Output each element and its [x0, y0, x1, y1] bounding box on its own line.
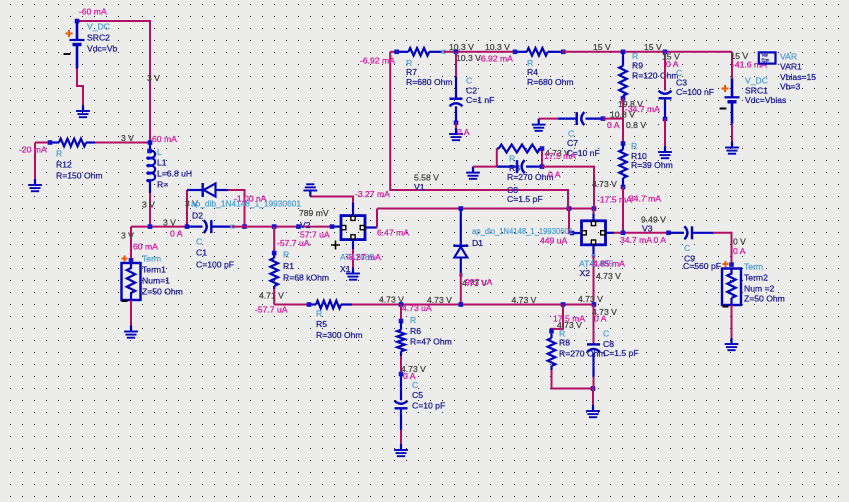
- svg-text:R=150 Ohm: R=150 Ohm: [56, 171, 103, 181]
- svg-text:4.73 V: 4.73 V: [512, 295, 537, 305]
- svg-text:R6: R6: [410, 326, 421, 336]
- svg-text:C: C: [466, 76, 472, 86]
- svg-text:Vdc=Vb: Vdc=Vb: [87, 44, 118, 54]
- svg-text:C: C: [196, 237, 202, 247]
- svg-text:R: R: [632, 51, 638, 61]
- svg-text:R=68 kOhm: R=68 kOhm: [283, 273, 329, 283]
- svg-text:-4.85 mA: -4.85 mA: [590, 259, 625, 269]
- svg-text:R=270 Ohm: R=270 Ohm: [507, 172, 554, 182]
- svg-text:R=: R=: [157, 180, 168, 190]
- svg-text:-6.92 mA: -6.92 mA: [478, 54, 513, 64]
- svg-text:R=120 Ohm: R=120 Ohm: [632, 71, 679, 81]
- svg-text:Vb=3: Vb=3: [780, 82, 801, 92]
- svg-text:60 mA: 60 mA: [152, 134, 177, 144]
- svg-text:3 V: 3 V: [121, 231, 134, 241]
- svg-text:3 V: 3 V: [163, 218, 176, 228]
- svg-text:R5: R5: [316, 319, 327, 329]
- svg-text:Z=50 Ohm: Z=50 Ohm: [142, 287, 183, 297]
- svg-text:V_DC: V_DC: [87, 22, 110, 32]
- svg-text:4.73 V: 4.73 V: [578, 294, 603, 304]
- svg-text:15 V: 15 V: [644, 42, 662, 52]
- svg-text:VAR: VAR: [780, 52, 797, 62]
- svg-text:Num =2: Num =2: [744, 284, 775, 294]
- svg-text:C=1.5 pF: C=1.5 pF: [507, 194, 543, 204]
- svg-text:V3: V3: [642, 224, 653, 234]
- svg-text:R=300 Ohm: R=300 Ohm: [316, 330, 363, 340]
- svg-text:-1.00 nA: -1.00 nA: [234, 194, 267, 204]
- svg-text:R=680 Ohm: R=680 Ohm: [527, 77, 574, 87]
- svg-text:C=1 nF: C=1 nF: [466, 95, 494, 105]
- svg-text:D2: D2: [192, 211, 203, 221]
- svg-text:4.73 V: 4.73 V: [596, 271, 621, 281]
- svg-text:V_DC: V_DC: [745, 76, 768, 86]
- svg-text:0.8 V: 0.8 V: [626, 120, 646, 130]
- svg-text:3 V: 3 V: [142, 200, 155, 210]
- svg-text:C=100 pF: C=100 pF: [196, 260, 234, 270]
- svg-text:C: C: [568, 129, 574, 139]
- svg-text:C5: C5: [412, 390, 423, 400]
- svg-text:Term2: Term2: [744, 273, 768, 283]
- svg-text:R=270 Ohm: R=270 Ohm: [559, 349, 606, 359]
- svg-text:5.58 V: 5.58 V: [414, 173, 439, 183]
- svg-text:3 V: 3 V: [147, 73, 160, 83]
- svg-text:C=100 nF: C=100 nF: [676, 87, 714, 97]
- svg-text:R: R: [283, 250, 289, 260]
- svg-text:0 A: 0 A: [170, 229, 183, 239]
- svg-text:L: L: [157, 147, 162, 157]
- svg-text:R7: R7: [406, 67, 417, 77]
- svg-text:C2: C2: [466, 86, 477, 96]
- svg-text:4.73 V: 4.73 V: [592, 179, 617, 189]
- svg-text:X1: X1: [340, 264, 351, 274]
- svg-text:L1: L1: [157, 158, 167, 168]
- svg-text:Term1: Term1: [142, 265, 166, 275]
- svg-text:Z=50 Ohm: Z=50 Ohm: [744, 294, 785, 304]
- svg-text:4.71 V: 4.71 V: [259, 291, 284, 301]
- svg-text:Vdc=Vbias: Vdc=Vbias: [745, 95, 786, 105]
- svg-text:0 A: 0 A: [666, 59, 679, 69]
- svg-text:17.5 mA: 17.5 mA: [544, 151, 576, 161]
- svg-text:C=1.5 pF: C=1.5 pF: [603, 348, 639, 358]
- svg-text:-17.5 mA: -17.5 mA: [597, 195, 632, 205]
- svg-text:6.47 mA: 6.47 mA: [377, 228, 409, 238]
- svg-text:789 mV: 789 mV: [299, 208, 329, 218]
- svg-text:Eqn: Eqn: [762, 58, 770, 63]
- svg-text:L=6.8 uH: L=6.8 uH: [157, 169, 192, 179]
- svg-text:X2: X2: [580, 268, 591, 278]
- svg-text:0 A: 0 A: [654, 235, 667, 245]
- svg-text:R: R: [410, 315, 416, 325]
- svg-text:-6.92 mA: -6.92 mA: [360, 56, 395, 66]
- svg-text:15 V: 15 V: [593, 42, 611, 52]
- svg-text:C3: C3: [676, 78, 687, 88]
- svg-text:60 mA: 60 mA: [133, 242, 158, 252]
- svg-text:R: R: [316, 309, 322, 319]
- svg-text:SRC1: SRC1: [745, 86, 768, 96]
- svg-text:R1: R1: [283, 261, 294, 271]
- svg-text:-8.27 mA: -8.27 mA: [346, 252, 381, 262]
- svg-text:10.3 V: 10.3 V: [485, 42, 510, 52]
- svg-text:10.3 V: 10.3 V: [449, 42, 474, 52]
- svg-text:-3.27 mA: -3.27 mA: [355, 189, 390, 199]
- svg-text:-57.7 uA: -57.7 uA: [255, 305, 288, 315]
- svg-text:R: R: [56, 149, 62, 159]
- svg-text:SRC2: SRC2: [87, 33, 110, 43]
- svg-text:34.7 mA: 34.7 mA: [620, 235, 652, 245]
- svg-text:0 A: 0 A: [607, 120, 620, 130]
- svg-text:Term: Term: [142, 254, 161, 264]
- svg-text:C: C: [412, 380, 418, 390]
- svg-text:C=10 pF: C=10 pF: [412, 401, 445, 411]
- svg-text:R=47 Ohm: R=47 Ohm: [410, 337, 452, 347]
- svg-text:34.7 mA: 34.7 mA: [629, 194, 661, 204]
- svg-text:C: C: [676, 68, 682, 78]
- svg-text:4.73 V: 4.73 V: [379, 295, 404, 305]
- svg-text:4.73 uA: 4.73 uA: [402, 303, 432, 313]
- svg-text:VAR1: VAR1: [780, 62, 802, 72]
- svg-text:0 A: 0 A: [548, 170, 561, 180]
- svg-text:C1: C1: [196, 248, 207, 258]
- svg-text:C=560 pF: C=560 pF: [683, 261, 721, 271]
- svg-text:R12: R12: [56, 160, 72, 170]
- svg-text:Term: Term: [744, 262, 763, 272]
- svg-text:ap_dio_1N4148_1_19930601: ap_dio_1N4148_1_19930601: [472, 226, 573, 236]
- svg-text:Vbias=15: Vbias=15: [780, 72, 816, 82]
- svg-text:-20 mA: -20 mA: [19, 145, 47, 155]
- svg-text:V1: V1: [414, 182, 425, 192]
- svg-text:0 A: 0 A: [457, 127, 470, 137]
- svg-text:R8: R8: [559, 338, 570, 348]
- svg-text:0 V: 0 V: [733, 237, 746, 247]
- svg-text:57.7 uA: 57.7 uA: [300, 230, 330, 240]
- svg-text:Num=1: Num=1: [142, 276, 170, 286]
- svg-text:10.8 V: 10.8 V: [610, 110, 635, 120]
- svg-text:997 uA: 997 uA: [465, 277, 493, 287]
- svg-text:R=680 Ohm: R=680 Ohm: [406, 77, 453, 87]
- svg-text:0 A: 0 A: [594, 314, 607, 324]
- svg-text:R=39 Ohm: R=39 Ohm: [631, 160, 673, 170]
- svg-text:-60 mA: -60 mA: [79, 7, 107, 17]
- svg-text:R9: R9: [632, 61, 643, 71]
- svg-text:D1: D1: [472, 238, 483, 248]
- svg-text:0 A: 0 A: [733, 246, 746, 256]
- svg-text:449 uA: 449 uA: [540, 236, 568, 246]
- svg-text:R4: R4: [527, 67, 538, 77]
- svg-text:C7: C7: [567, 138, 578, 148]
- svg-text:R: R: [631, 141, 637, 151]
- svg-text:V2: V2: [300, 220, 311, 230]
- svg-text:C: C: [603, 329, 609, 339]
- svg-text:R: R: [509, 154, 515, 164]
- svg-text:C: C: [684, 243, 690, 253]
- svg-text:3 V: 3 V: [121, 133, 134, 143]
